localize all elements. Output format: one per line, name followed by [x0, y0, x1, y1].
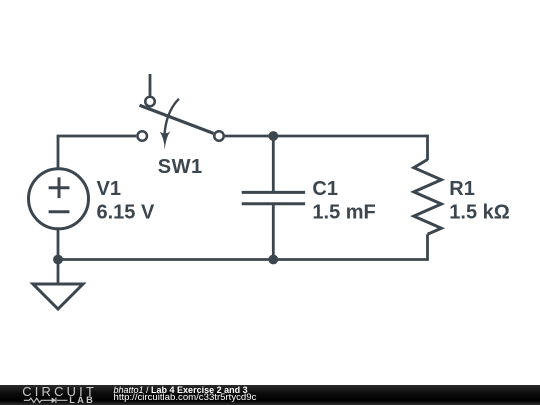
ground	[33, 284, 83, 309]
svg-text:V1: V1	[97, 178, 121, 200]
arrowhead	[160, 131, 171, 149]
wire: top rail from switch right terminal to right corner	[225, 135, 428, 138]
voltage source V1	[29, 169, 89, 229]
wire: right rail lower segment	[426, 234, 429, 260]
wire: top rail left segment to switch left terminal	[58, 136, 136, 137]
footer bar	[0, 385, 540, 405]
junction node: capacitor bottom	[268, 255, 278, 265]
terminal circle right	[214, 131, 224, 141]
svg-text:1.5 kΩ: 1.5 kΩ	[449, 201, 510, 223]
blade	[140, 105, 214, 133]
wire: capacitor bottom lead	[272, 204, 275, 260]
wire: capacitor top lead	[272, 136, 275, 192]
wire: bottom rail	[58, 258, 428, 261]
svg-text:1.5 mF: 1.5 mF	[312, 201, 375, 223]
wire: switch top stub	[149, 74, 152, 96]
svg-text:C1: C1	[312, 178, 338, 200]
junction node: capacitor top	[268, 131, 278, 141]
actuation arc	[164, 99, 179, 136]
svg-text:6.15 V: 6.15 V	[97, 201, 155, 223]
terminal circle left	[137, 131, 147, 141]
resistor R1	[414, 160, 442, 235]
wire: V1 top to top rail	[57, 136, 60, 168]
svg-text:SW1: SW1	[158, 156, 203, 178]
switch SW1	[137, 97, 223, 150]
wire: right rail upper segment	[426, 135, 429, 160]
terminal circle top	[145, 97, 155, 107]
wire: V1 bottom to ground	[57, 230, 60, 285]
junction node: V1 / bottom rail	[53, 255, 63, 265]
capacitor C1	[242, 192, 305, 203]
svg-text:LAB: LAB	[69, 395, 95, 405]
footer text	[114, 386, 248, 395]
CircuitLab logo	[0, 385, 100, 405]
svg-text:R1: R1	[449, 178, 475, 200]
